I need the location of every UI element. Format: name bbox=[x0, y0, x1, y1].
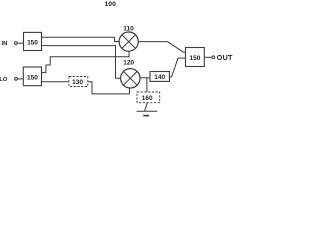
wire 150B lower output to phase shifter 130 bbox=[42, 81, 70, 83]
svg-text:150: 150 bbox=[27, 75, 38, 82]
wire 140 to combiner 150 bbox=[169, 58, 185, 77]
svg-text:160: 160 bbox=[142, 95, 153, 102]
terminal IN bbox=[15, 42, 18, 45]
mixer 120 bbox=[121, 69, 140, 88]
wire 150A top output to mixer 110 bbox=[42, 37, 120, 41]
wire mixer 120 to 140 bbox=[140, 77, 150, 79]
wire 150A bottom output to mixer 120 bbox=[42, 46, 121, 79]
phase shifter 130 (dashed) bbox=[69, 77, 88, 87]
svg-text:IN: IN bbox=[1, 41, 7, 47]
wire combiner to OUT bbox=[204, 56, 212, 58]
terminal OUT bbox=[212, 56, 215, 59]
svg-text:LO: LO bbox=[0, 77, 8, 83]
block 150 (LO splitter) bbox=[23, 67, 41, 86]
svg-text:120: 120 bbox=[123, 60, 134, 67]
wire IN to 150A bbox=[17, 42, 23, 44]
svg-text:110: 110 bbox=[123, 25, 134, 32]
block 150 (input splitter) bbox=[24, 32, 42, 50]
terminal LO bbox=[15, 78, 18, 81]
block 140 bbox=[150, 72, 169, 82]
wire 150B upper output to mixer 110 LO port bbox=[42, 51, 130, 72]
wire LO to 150B bbox=[17, 78, 23, 80]
svg-text:130: 130 bbox=[72, 79, 83, 86]
svg-text:100: 100 bbox=[105, 1, 117, 8]
svg-text:150: 150 bbox=[27, 40, 38, 47]
block 150 (combiner) bbox=[186, 48, 205, 67]
svg-text:150: 150 bbox=[189, 55, 200, 62]
svg-text:140: 140 bbox=[154, 74, 165, 81]
wire mixer 110 to combiner 150 bbox=[138, 42, 185, 53]
svg-text:OUT: OUT bbox=[217, 53, 233, 62]
ground bbox=[137, 103, 158, 116]
wire 130 to mixer 120 LO port bbox=[88, 82, 130, 94]
load 160 (dashed) bbox=[137, 92, 160, 103]
wire tap to load 160 bbox=[146, 78, 148, 92]
mixer 110 bbox=[119, 32, 138, 51]
